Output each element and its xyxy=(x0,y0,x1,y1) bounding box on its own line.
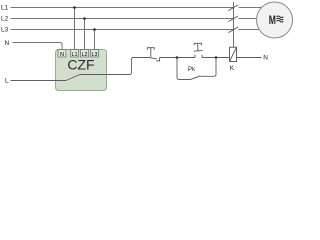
svg-text:Pk: Pk xyxy=(188,67,196,73)
pushbutton stop S1 fixed terminal seat xyxy=(156,58,160,61)
wire L2 right segment to motor xyxy=(239,18,259,20)
wire N line with bend down to CZF terminal N xyxy=(13,43,63,51)
contact K pole 2 xyxy=(228,16,238,22)
node junction branch right xyxy=(215,56,218,59)
wire coil to N xyxy=(237,57,262,59)
wire L3 right segment to motor xyxy=(239,29,261,31)
wire stop to start xyxy=(160,57,195,59)
terminal N of CZF xyxy=(58,50,66,58)
svg-text:N: N xyxy=(5,40,10,47)
wire start to coil xyxy=(202,57,230,59)
svg-text:K: K xyxy=(230,65,235,72)
terminal L1 of CZF xyxy=(71,50,79,58)
contactor K main contact linkage bar xyxy=(233,2,235,47)
wire tap from L2 down to CZF terminal L2 xyxy=(84,19,86,51)
svg-text:M: M xyxy=(269,15,276,27)
svg-text:CZF: CZF xyxy=(67,57,94,73)
svg-text:L3: L3 xyxy=(1,27,9,34)
node junction L2 tap xyxy=(83,17,86,20)
pushbutton start S2 moving contact xyxy=(194,50,203,53)
svg-text:L1: L1 xyxy=(1,5,9,12)
wire Pk branch left drop xyxy=(177,58,190,80)
pushbutton stop S1 (NC) bridge contact xyxy=(149,58,157,59)
wire L1 right segment to motor xyxy=(239,7,263,9)
switch CZF output contact xyxy=(66,75,80,81)
contact Pk (self hold, NO) xyxy=(190,76,201,80)
node junction L3 tap xyxy=(93,28,96,31)
node junction L1 tap xyxy=(73,6,76,9)
wire tap from L1 down to CZF terminal L1 xyxy=(74,8,76,51)
wire tap from L3 down to CZF terminal L3 xyxy=(94,30,96,51)
wire Pk branch right rise xyxy=(200,58,216,77)
contact K pole 1 xyxy=(228,5,238,11)
svg-text:L: L xyxy=(5,78,9,85)
pushbutton start S2 actuator xyxy=(194,43,201,51)
contact K pole 3 xyxy=(228,27,238,33)
wire L1 line left segment xyxy=(11,7,234,9)
wire L2 line left segment xyxy=(11,18,234,20)
pushbutton start S2 (NO) terminals xyxy=(195,55,202,58)
svg-text:N: N xyxy=(60,52,64,58)
coil K of contactor xyxy=(230,47,237,61)
wire CZF contact output to control line xyxy=(80,58,150,75)
relay module CZF box xyxy=(56,50,107,91)
wire L input to CZF contact xyxy=(11,80,67,82)
svg-text:L2: L2 xyxy=(1,16,9,23)
terminal L2 of CZF xyxy=(81,50,89,58)
node junction branch left xyxy=(176,56,179,59)
symbol 3-phase tildes xyxy=(277,16,284,22)
motor M circle xyxy=(257,2,293,38)
terminal L3 of CZF xyxy=(91,50,99,58)
pushbutton stop S1 actuator xyxy=(147,48,154,58)
svg-text:N: N xyxy=(263,55,268,62)
wire L3 line left segment xyxy=(11,29,234,31)
